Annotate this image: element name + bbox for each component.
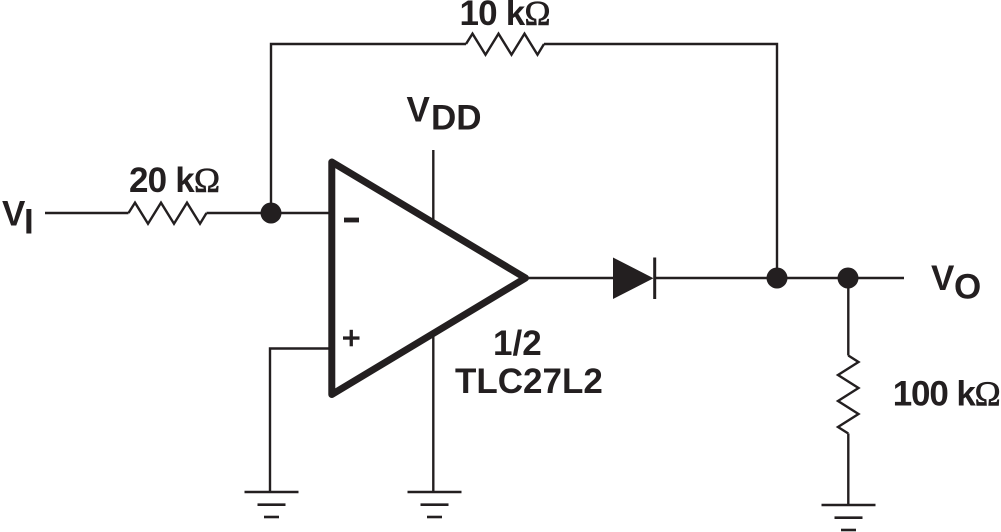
op-amp non-inverting input plus sign: [343, 330, 360, 347]
ground at non-inverting input: [245, 492, 299, 517]
op-amp inverting input minus sign: [344, 218, 359, 223]
wire op-amp output to diode: [526, 277, 613, 279]
resistor 100k zigzag: [838, 356, 859, 434]
svg-text:20 kΩ: 20 kΩ: [129, 161, 220, 200]
label VDD: [407, 90, 482, 137]
wire top feedback horizontal left segment: [271, 44, 466, 213]
node junction dot output to 100k: [838, 268, 859, 289]
wire VDD pin: [432, 150, 434, 222]
svg-text:1/2: 1/2: [493, 324, 542, 363]
label TLC27L2: [455, 362, 603, 401]
ground at 100k resistor: [822, 505, 876, 530]
label 20 kOhm: [129, 161, 220, 200]
label 1/2: [493, 324, 542, 363]
svg-text:I: I: [24, 203, 34, 242]
wire 100k resistor top lead: [847, 278, 849, 356]
resistor 10k zigzag: [466, 34, 544, 55]
label 10 kOhm: [460, 0, 551, 33]
wire top feedback horizontal right segment: [544, 44, 777, 278]
svg-text:V: V: [407, 90, 431, 129]
svg-text:10 kΩ: 10 kΩ: [460, 0, 551, 33]
wire non-inverting input: [270, 349, 332, 493]
node junction dot feedback to output: [767, 268, 788, 289]
resistor 20k zigzag: [129, 203, 207, 224]
svg-text:V: V: [931, 259, 955, 298]
svg-text:100 kΩ: 100 kΩ: [893, 375, 1001, 414]
op-amp U1 triangle: [332, 162, 526, 395]
wire input from VI to 20k: [45, 212, 129, 214]
svg-text:DD: DD: [431, 99, 482, 138]
node junction dot at inverting input: [261, 203, 282, 224]
ground at op-amp bottom supply pin: [408, 492, 462, 517]
svg-text:O: O: [954, 267, 981, 306]
wire diode to VO: [655, 277, 905, 279]
wire op-amp bottom supply pin: [432, 333, 434, 492]
wire from 20k to op-amp inverting input: [207, 212, 333, 214]
diode D1: [613, 258, 656, 300]
label VO: [931, 259, 981, 306]
label 100 kOhm: [893, 375, 1001, 414]
label VI: [2, 194, 34, 241]
wire 100k resistor bottom lead: [847, 434, 849, 506]
svg-text:V: V: [2, 194, 26, 233]
svg-text:TLC27L2: TLC27L2: [455, 362, 603, 401]
